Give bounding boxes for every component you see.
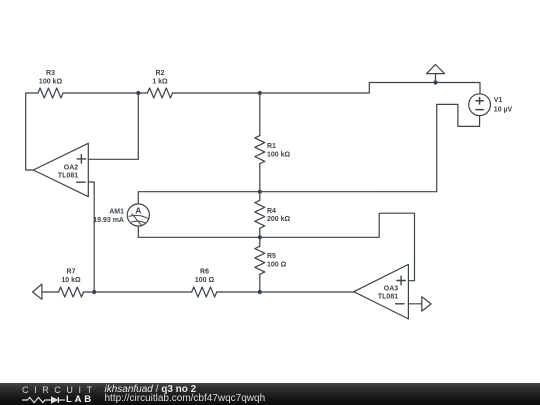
svg-text:10 kΩ: 10 kΩ [61,277,81,284]
svg-text:R4: R4 [267,208,276,215]
svg-text:R5: R5 [267,253,276,260]
svg-text:10 µV: 10 µV [494,106,513,113]
svg-text:R6: R6 [200,269,209,276]
svg-text:OA2: OA2 [64,164,79,171]
svg-text:AM1: AM1 [109,208,124,215]
svg-text:TL081: TL081 [378,294,398,301]
svg-text:OA3: OA3 [384,286,399,293]
svg-text:R3: R3 [46,70,55,77]
svg-text:100 Ω: 100 Ω [195,277,215,284]
svg-text:R7: R7 [67,269,76,276]
svg-text:100 kΩ: 100 kΩ [39,79,63,86]
svg-text:1 kΩ: 1 kΩ [152,79,168,86]
svg-text:TL081: TL081 [58,172,78,179]
svg-text:V1: V1 [494,97,503,104]
svg-text:A: A [135,206,141,216]
svg-text:R1: R1 [267,143,276,150]
svg-text:200 kΩ: 200 kΩ [267,216,291,223]
svg-text:19.93 mA: 19.93 mA [93,217,124,224]
svg-text:100 Ω: 100 Ω [267,261,287,268]
svg-text:R2: R2 [156,70,165,77]
svg-text:100 kΩ: 100 kΩ [267,152,291,159]
